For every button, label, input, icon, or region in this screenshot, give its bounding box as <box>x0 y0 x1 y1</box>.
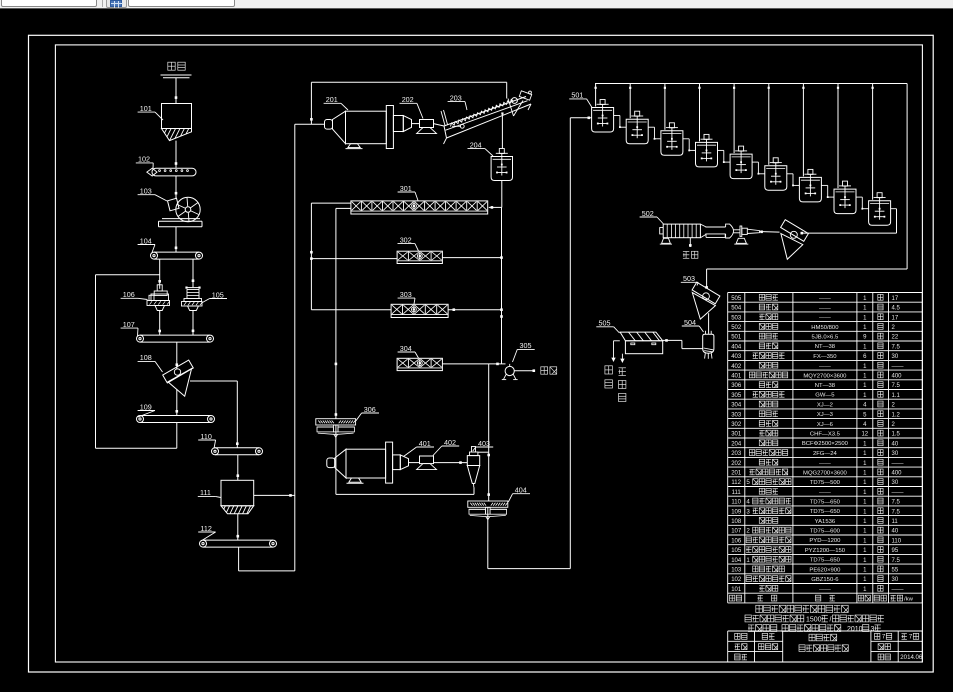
svg-text:——: —— <box>819 490 831 496</box>
svg-text:112: 112 <box>200 524 211 533</box>
svg-text:101: 101 <box>731 587 742 593</box>
svg-text:2014.06: 2014.06 <box>900 654 923 661</box>
svg-text:——: —— <box>819 305 831 311</box>
svg-text:PE620×900: PE620×900 <box>809 567 841 573</box>
svg-text:401: 401 <box>419 439 431 448</box>
svg-text:PYZ1200—150: PYZ1200—150 <box>805 548 846 554</box>
svg-text:GW—5: GW—5 <box>815 393 835 399</box>
svg-text:501: 501 <box>731 335 742 341</box>
svg-text:504: 504 <box>684 318 696 327</box>
svg-text:30: 30 <box>892 354 899 360</box>
svg-text:2010: 2010 <box>847 626 863 633</box>
svg-text:7.5: 7.5 <box>892 500 901 506</box>
svg-text:102: 102 <box>138 155 150 164</box>
svg-text:17: 17 <box>892 315 899 321</box>
svg-text:1.2: 1.2 <box>892 412 901 418</box>
svg-text:305: 305 <box>731 393 742 399</box>
svg-text:TD75—500: TD75—500 <box>810 480 841 486</box>
svg-text:201: 201 <box>731 471 742 477</box>
svg-text:101: 101 <box>140 104 152 113</box>
svg-text:7.5: 7.5 <box>892 509 901 515</box>
svg-text:108: 108 <box>731 519 742 525</box>
svg-text:505: 505 <box>731 296 742 302</box>
svg-text:YA1536: YA1536 <box>815 519 836 525</box>
svg-text:104: 104 <box>731 558 742 564</box>
svg-text:112: 112 <box>731 480 741 486</box>
svg-text:102: 102 <box>731 577 742 583</box>
svg-text:106: 106 <box>123 290 135 299</box>
svg-text:302: 302 <box>400 235 412 244</box>
svg-text:303: 303 <box>400 290 412 299</box>
svg-text:5JB.0×6.5: 5JB.0×6.5 <box>812 335 839 341</box>
svg-text:/kw: /kw <box>904 596 914 602</box>
svg-text:111: 111 <box>732 490 742 496</box>
svg-text:11: 11 <box>892 519 899 525</box>
svg-text:——: —— <box>819 296 831 302</box>
svg-text:301: 301 <box>731 432 742 438</box>
svg-text:——: —— <box>819 364 831 370</box>
svg-text:104: 104 <box>140 236 152 245</box>
svg-text:MQG2700×3600: MQG2700×3600 <box>803 470 847 476</box>
svg-text:204: 204 <box>731 441 742 447</box>
svg-text:BCFΦ2500×2500: BCFΦ2500×2500 <box>802 441 849 447</box>
svg-text:TD75—600: TD75—600 <box>810 529 841 535</box>
svg-text:FX—350: FX—350 <box>813 354 837 360</box>
svg-text:107: 107 <box>731 529 742 535</box>
svg-text:TD75—650: TD75—650 <box>810 509 841 515</box>
svg-text:103: 103 <box>140 187 152 196</box>
svg-text:1.1: 1.1 <box>892 393 901 399</box>
svg-text:401: 401 <box>731 374 742 380</box>
svg-text:306: 306 <box>364 405 376 414</box>
svg-text:2FG—24: 2FG—24 <box>813 451 838 457</box>
svg-text:95: 95 <box>892 548 899 554</box>
svg-text:402: 402 <box>444 438 456 447</box>
svg-text:1.5: 1.5 <box>892 432 901 438</box>
svg-text:304: 304 <box>731 403 742 409</box>
svg-text:1: 1 <box>746 557 750 564</box>
svg-text:504: 504 <box>731 306 742 312</box>
svg-text:204: 204 <box>470 140 482 149</box>
svg-text:GBZ150-6: GBZ150-6 <box>811 577 839 583</box>
svg-text:7.5: 7.5 <box>892 344 901 350</box>
svg-text:22: 22 <box>892 335 899 341</box>
svg-text:40: 40 <box>892 529 899 535</box>
svg-text:——: —— <box>819 461 831 467</box>
svg-text:108: 108 <box>140 353 152 362</box>
svg-text:105: 105 <box>731 548 742 554</box>
svg-text:NT—38: NT—38 <box>815 383 836 389</box>
svg-text:502: 502 <box>731 325 742 331</box>
svg-text:——: —— <box>892 364 904 370</box>
svg-text:503: 503 <box>683 274 695 283</box>
svg-text:301: 301 <box>400 184 412 193</box>
svg-text:XJ—3: XJ—3 <box>817 412 834 418</box>
svg-text:4.5: 4.5 <box>892 306 901 312</box>
svg-text:404: 404 <box>731 344 742 350</box>
svg-text:——: —— <box>819 315 831 321</box>
svg-text:203: 203 <box>450 93 462 102</box>
svg-text:110: 110 <box>200 432 211 441</box>
svg-text:30: 30 <box>892 577 899 583</box>
svg-text:——: —— <box>819 587 831 593</box>
svg-text:——: —— <box>892 490 904 496</box>
svg-text:105: 105 <box>212 290 224 299</box>
svg-text:203: 203 <box>731 451 742 457</box>
svg-text:7.5: 7.5 <box>892 383 901 389</box>
svg-text:502: 502 <box>642 209 654 218</box>
svg-text:404: 404 <box>515 486 527 495</box>
svg-text:3: 3 <box>746 508 750 515</box>
svg-text:304: 304 <box>400 344 412 353</box>
svg-text:5: 5 <box>746 479 750 486</box>
svg-text:402: 402 <box>731 364 742 370</box>
svg-text:110: 110 <box>892 538 902 544</box>
svg-text:XJ—2: XJ—2 <box>817 402 833 408</box>
svg-text:CHF—X3.5: CHF—X3.5 <box>810 432 841 438</box>
svg-text:/: / <box>830 616 832 623</box>
svg-text:303: 303 <box>731 412 742 418</box>
svg-text:XJ—6: XJ—6 <box>817 422 834 428</box>
svg-text:TD75—650: TD75—650 <box>810 499 841 505</box>
svg-text:110: 110 <box>731 500 741 506</box>
svg-text:403: 403 <box>731 354 742 360</box>
svg-text:7.5: 7.5 <box>892 558 901 564</box>
svg-text:MQY2700×3600: MQY2700×3600 <box>803 373 847 379</box>
svg-text:55: 55 <box>892 568 899 574</box>
svg-text:NT—38: NT—38 <box>815 344 836 350</box>
svg-text:——: —— <box>892 587 904 593</box>
svg-text:TD75—650: TD75—650 <box>810 558 841 564</box>
svg-text:109: 109 <box>731 509 742 515</box>
svg-text:302: 302 <box>731 422 742 428</box>
svg-text:109: 109 <box>140 402 152 411</box>
svg-text:30: 30 <box>892 480 899 486</box>
svg-text:30: 30 <box>892 451 899 457</box>
svg-text:503: 503 <box>731 315 742 321</box>
svg-text:400: 400 <box>892 374 903 380</box>
svg-text:1500: 1500 <box>806 616 822 623</box>
svg-text:202: 202 <box>402 95 414 104</box>
svg-text:501: 501 <box>571 91 583 100</box>
svg-text:PYD—1200: PYD—1200 <box>809 538 841 544</box>
svg-text:2: 2 <box>746 528 750 535</box>
svg-text:400: 400 <box>892 471 903 477</box>
svg-text:17: 17 <box>892 296 899 302</box>
svg-text:505: 505 <box>599 319 611 328</box>
svg-text:107: 107 <box>123 320 135 329</box>
svg-text:103: 103 <box>731 568 742 574</box>
svg-text:111: 111 <box>200 488 211 497</box>
svg-text:4: 4 <box>746 499 750 506</box>
svg-text:40: 40 <box>892 441 899 447</box>
svg-text:306: 306 <box>731 383 742 389</box>
svg-text:202: 202 <box>731 461 742 467</box>
svg-text:305: 305 <box>520 341 532 350</box>
svg-text:HM50/800: HM50/800 <box>811 325 839 331</box>
svg-text:201: 201 <box>326 95 338 104</box>
svg-text:——: —— <box>892 461 904 467</box>
svg-text:106: 106 <box>731 538 742 544</box>
svg-text:12: 12 <box>861 432 868 438</box>
